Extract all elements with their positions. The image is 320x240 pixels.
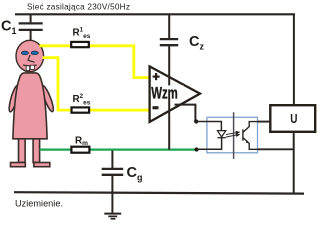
op-amp U1 (Wzm) bbox=[150, 66, 200, 122]
wire: opto top-right pin stub bbox=[258, 121, 271, 123]
person body (patient) bbox=[7, 40, 55, 166]
op-amp - input mark bbox=[153, 106, 159, 109]
wire: yellow electrode 2 (head to - input) bbox=[43, 58, 149, 111]
resistor R1es bbox=[71, 42, 89, 47]
wire: LED cathode to green node bbox=[197, 138, 222, 150]
capacitor Cz bbox=[160, 14, 178, 45]
wire: green electrode (leg to opto) bbox=[40, 149, 197, 151]
LED D1 bbox=[217, 131, 225, 137]
emitter arrowhead bbox=[246, 140, 249, 143]
op-amp label Wzm bbox=[151, 85, 183, 98]
isolation barrier line bbox=[233, 112, 235, 159]
svg-text:U: U bbox=[290, 112, 297, 127]
capacitor Cg bbox=[102, 151, 124, 213]
wire: output to LED anode bbox=[196, 122, 221, 131]
wire: earth bottom rail bbox=[14, 192, 304, 193]
foot left bbox=[11, 163, 26, 167]
wire: emitter to right rail bbox=[243, 138, 294, 150]
wire: mains top rail bbox=[15, 13, 295, 15]
head bbox=[16, 40, 44, 71]
arm left bbox=[7, 84, 20, 112]
leg left bbox=[19, 138, 26, 163]
wire: collector to U box bbox=[243, 122, 270, 133]
face: nose bbox=[28, 55, 35, 63]
arm right bbox=[40, 85, 56, 113]
leg right bbox=[33, 138, 40, 163]
meter U box bbox=[270, 105, 315, 132]
face: eyes bbox=[21, 51, 28, 55]
op-amp + input mark bbox=[153, 73, 160, 80]
node: output junction bbox=[194, 119, 198, 123]
foot right bbox=[34, 163, 50, 167]
face: mouth bbox=[23, 64, 37, 67]
ground symbol bbox=[104, 214, 121, 219]
optocoupler isolation box bbox=[207, 117, 258, 153]
resistor R2es bbox=[72, 107, 90, 112]
wire: yellow electrode 1 (head to + input) bbox=[40, 46, 149, 78]
torso bbox=[13, 73, 47, 139]
resistor Rm bbox=[71, 147, 89, 153]
node: green junction bbox=[194, 147, 198, 151]
wire: Cz down through op-amp to green wire bbox=[168, 46, 170, 149]
wire: opto bottom-right pin stub bbox=[258, 148, 294, 150]
light arrows bbox=[226, 132, 239, 138]
svg-text:Wzm: Wzm bbox=[151, 84, 178, 103]
wire: U box down to bottom rail bbox=[293, 133, 295, 194]
face: teeth bbox=[26, 66, 29, 71]
svg-text:Sieć zasilająca 230V/50Hz: Sieć zasilająca 230V/50Hz bbox=[27, 2, 130, 11]
wire: right rail down to U bbox=[293, 14, 295, 106]
svg-text:Uziemienie.: Uziemienie. bbox=[15, 199, 63, 209]
capacitor C1 bbox=[19, 14, 43, 42]
wire: op-amp output elbow bbox=[175, 105, 196, 122]
phototransistor Q1 bbox=[242, 129, 244, 140]
